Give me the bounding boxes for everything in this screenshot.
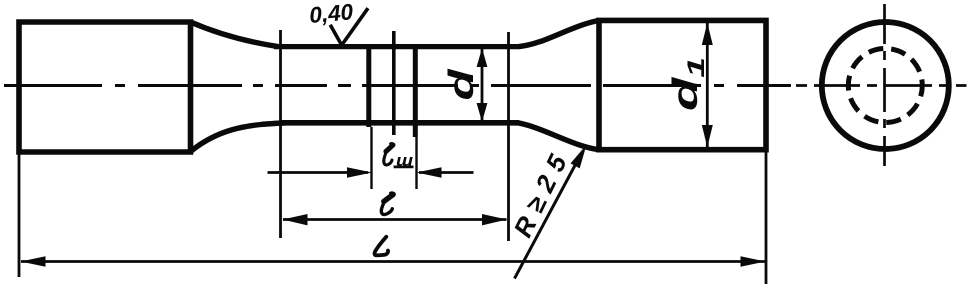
- dimension l_sh left tail: [268, 171, 369, 174]
- leader line R>=25: [515, 156, 581, 279]
- arrowhead d top: [477, 48, 488, 67]
- fillet bottom-right: [518, 123, 599, 150]
- label L script: [375, 237, 389, 256]
- circle view inner dashed circle: [848, 49, 922, 123]
- dimension d line: [481, 49, 484, 122]
- dimension l line: [283, 218, 507, 221]
- arrowhead l left: [283, 214, 308, 225]
- right grip extension line (L): [765, 150, 768, 284]
- fillet top-left: [191, 22, 279, 47]
- weld mark left: [366, 45, 371, 128]
- fillet bottom-left: [191, 123, 287, 152]
- extension line l right: [507, 32, 510, 241]
- weld mark right extension: [415, 137, 417, 189]
- label l script ell: [381, 193, 393, 215]
- dimension l_sh right tail: [419, 171, 474, 174]
- arrowhead leader: [571, 145, 587, 169]
- weld center line: [392, 31, 396, 135]
- label l_sh underline: [394, 165, 414, 168]
- arrowhead L left: [21, 256, 46, 267]
- centerline of specimen: [4, 84, 791, 87]
- label R>=25: [507, 142, 576, 241]
- arrowhead l_sh right: [417, 167, 442, 178]
- extension line l left: [279, 30, 282, 238]
- circle view outer circle: [822, 22, 949, 149]
- right grip: [599, 20, 766, 149]
- gauge bottom edge: [282, 120, 519, 126]
- arrowhead d1 top: [702, 23, 713, 45]
- arrowhead L right: [741, 256, 766, 267]
- circle view horizontal centerline: [796, 84, 967, 87]
- arrowhead l_sh left: [347, 167, 372, 178]
- svg-text:0,40: 0,40: [308, 0, 354, 28]
- arrowhead d1 bottom: [702, 125, 713, 147]
- arrowhead d bottom: [477, 103, 488, 122]
- left grip extension line (L): [18, 152, 21, 277]
- dimension d1 line: [706, 23, 709, 148]
- label l_sh script ell: [384, 143, 393, 165]
- dimension L line: [21, 260, 765, 263]
- weld mark right: [413, 45, 418, 138]
- left grip: [19, 22, 191, 152]
- weld mark left extension: [370, 127, 372, 189]
- gauge top edge: [274, 44, 520, 49]
- roughness mark check: [330, 8, 368, 45]
- label d1: [666, 57, 710, 111]
- svg-text:d: d: [442, 69, 481, 101]
- fillet top-right: [519, 20, 599, 46]
- circle view vertical centerline: [883, 4, 886, 166]
- arrowhead l right: [482, 214, 507, 225]
